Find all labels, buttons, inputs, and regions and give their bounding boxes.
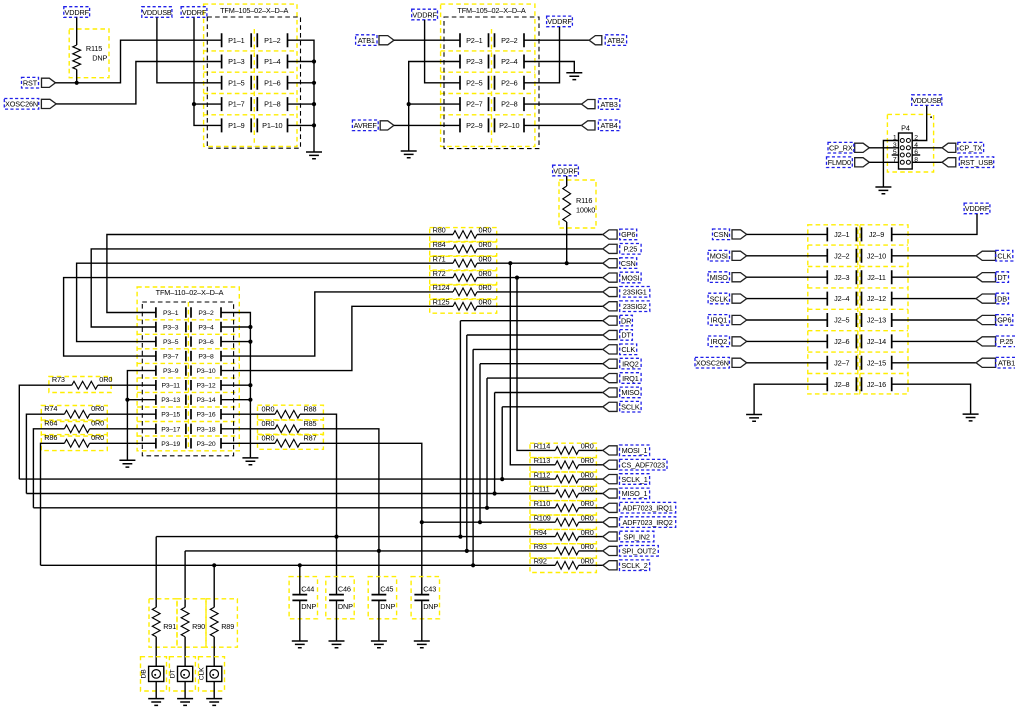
resistor R114 outline (yellow) <box>530 443 596 457</box>
svg-text:DNP: DNP <box>92 54 107 63</box>
port ADF7023_IRQ1 <box>603 503 617 512</box>
svg-text:23SIG2: 23SIG2 <box>623 302 647 311</box>
wire SCLK to port <box>502 406 603 408</box>
resistor R64 outline (yellow) <box>41 420 107 436</box>
ground (P1 bus) <box>306 152 322 159</box>
resistor R72 outline (yellow) <box>430 271 497 285</box>
svg-text:P1–5: P1–5 <box>228 78 245 87</box>
junction IRQ2/lower row <box>478 520 482 524</box>
wire P2-4 to ground <box>524 62 574 73</box>
wire C44 to ground <box>299 600 301 641</box>
resistor R87 outline (yellow) <box>258 434 324 449</box>
wires P3-4,P3-6,P3-12,P3-14 to ground bus <box>221 325 252 402</box>
wire R86 to P3-19 <box>90 442 156 444</box>
capacitor C43 outline (yellow) <box>411 577 439 619</box>
net label 23SIG1 (middle) <box>620 287 650 298</box>
resistor R109 outline (yellow) <box>530 515 596 529</box>
svg-text:CP_TX: CP_TX <box>959 144 982 153</box>
port IRQ2 (J2 left) <box>732 337 747 346</box>
wire R113 to port <box>579 464 603 466</box>
wire IRQ1 vertical to lower bank <box>486 378 488 508</box>
svg-text:P3–17: P3–17 <box>161 426 180 433</box>
wire DT to port <box>467 334 603 336</box>
resistor R112 outline (yellow) <box>530 472 596 486</box>
resistor R90 <box>181 607 189 637</box>
capacitor C46 <box>329 595 344 601</box>
wire CSN to J2-1 <box>747 233 828 235</box>
junction C44/SCLK_2 <box>298 563 302 567</box>
resistor R86 <box>64 439 89 447</box>
wire P2-8 to ATB3 <box>524 103 582 105</box>
capacitor C44 <box>292 595 307 601</box>
connector P2 pins P2-1..P2-10 <box>460 33 524 132</box>
wire P4 pin1 to ground <box>883 141 898 188</box>
svg-text:RST_USB: RST_USB <box>960 158 993 167</box>
wire J2-11 to DT <box>892 276 976 278</box>
svg-text:VDDRF: VDDRF <box>553 166 578 175</box>
junction C45/SPI_OUT2 <box>377 549 381 553</box>
svg-text:TFM–110–02–X–D–A: TFM–110–02–X–D–A <box>156 288 224 297</box>
ground (test point DT) <box>177 699 193 706</box>
svg-text:P3–3: P3–3 <box>163 325 179 332</box>
svg-text:P1–1: P1–1 <box>228 36 245 45</box>
svg-text:XOSC26N: XOSC26N <box>5 100 38 109</box>
ground (J2-16) <box>963 414 979 421</box>
resistor R110 <box>555 504 578 512</box>
svg-text:VDDRF: VDDRF <box>547 17 572 26</box>
svg-text:0R0: 0R0 <box>581 513 594 522</box>
resistor R91 outline (yellow) <box>149 599 177 647</box>
port 23SIG1 (middle) <box>603 287 617 296</box>
svg-text:P3–7: P3–7 <box>163 354 179 361</box>
svg-text:XOSC26N: XOSC26N <box>696 359 729 368</box>
resistor R115 outline (yellow) <box>69 29 109 78</box>
port MISO (middle) <box>603 388 617 397</box>
power label VDDRF (top, P1) <box>181 7 207 18</box>
wire VDDRF to R115 <box>76 18 78 46</box>
svg-text:J2–13: J2–13 <box>867 316 886 325</box>
test point DT <box>178 666 193 681</box>
resistor R64 <box>64 425 89 433</box>
junction IRQ1/lower row <box>485 506 489 510</box>
svg-text:SCLK: SCLK <box>621 403 640 412</box>
connector P3 component outline (yellow) <box>137 287 239 451</box>
svg-text:ATB2: ATB2 <box>607 36 624 45</box>
svg-text:IRQ1: IRQ1 <box>711 316 728 325</box>
resistor R84 outline (yellow) <box>430 242 497 256</box>
wire J2-16 to ground <box>892 384 971 414</box>
svg-text:DT: DT <box>997 273 1007 282</box>
wire R92 to port <box>579 564 603 566</box>
port FLMD0 <box>855 158 870 167</box>
svg-text:0R0: 0R0 <box>479 240 492 249</box>
svg-text:P2–2: P2–2 <box>501 36 518 45</box>
svg-text:0R0: 0R0 <box>91 404 104 413</box>
capacitor C44 outline (yellow) <box>289 577 317 619</box>
svg-text:P3–4: P3–4 <box>198 325 214 332</box>
connector P4 pin numbers 1-8 <box>893 135 918 164</box>
port GP6 (middle) <box>603 230 617 239</box>
svg-text:DB: DB <box>997 294 1007 303</box>
svg-text:MISO: MISO <box>621 388 640 397</box>
net label GP6 (J2 right) <box>996 315 1013 326</box>
wire SCLK to J2-4 <box>747 298 828 300</box>
wire SPI_OUT2 row (R90 to R93) <box>185 550 555 552</box>
svg-text:R73: R73 <box>52 375 65 384</box>
wire CSN riser to R113 <box>510 263 555 465</box>
junction VDDRF/P1-7 <box>192 102 196 106</box>
svg-text:0R0: 0R0 <box>581 442 594 451</box>
net label ATB3 <box>598 99 619 110</box>
connector J2 pins J2-1..J2-16 <box>827 227 891 391</box>
port MOSI (middle) <box>603 273 617 282</box>
wire XOSC26N to P1-3 <box>56 62 221 104</box>
resistor R125 <box>453 302 477 310</box>
svg-text:GP6: GP6 <box>997 316 1011 325</box>
resistor R92 outline (yellow) <box>530 558 596 572</box>
svg-text:R72: R72 <box>433 269 446 278</box>
connector P4 body <box>899 133 913 169</box>
svg-text:P2–4: P2–4 <box>501 57 518 66</box>
connector J2 component outlines (yellow) <box>808 225 908 394</box>
svg-text:0R0: 0R0 <box>262 434 275 443</box>
wire R89 top <box>213 565 215 607</box>
resistor R116 outline (yellow) <box>559 180 596 228</box>
svg-text:R112: R112 <box>534 470 550 479</box>
ground (C46) <box>329 641 345 648</box>
svg-text:SPI_OUT2: SPI_OUT2 <box>622 547 656 556</box>
resistor R115 <box>73 45 81 70</box>
svg-text:R93: R93 <box>534 542 547 551</box>
svg-text:R110: R110 <box>534 499 550 508</box>
wire MISO to J2-3 <box>747 276 828 278</box>
port MISO_1 <box>603 489 617 498</box>
svg-text:AVREF: AVREF <box>354 121 378 130</box>
net label CSN (J2 left) <box>713 229 730 240</box>
port MOSI (J2 left) <box>732 251 747 260</box>
ground (test point CLK) <box>206 699 222 706</box>
ground (C45) <box>371 641 387 648</box>
resistor R88 outline (yellow) <box>258 405 324 420</box>
wire R114 to port <box>579 449 603 451</box>
svg-text:R85: R85 <box>304 419 317 428</box>
wire P3-20 to R87 <box>221 442 275 444</box>
port MISO (J2 left) <box>732 273 747 282</box>
wire R109 to port <box>579 521 603 523</box>
svg-text:P.25: P.25 <box>1000 337 1014 346</box>
wire R64 left to riser <box>33 429 64 508</box>
port CSN (J2 left) <box>732 230 747 239</box>
wire P2-7 stub <box>409 103 460 105</box>
junction SCLK/lower row <box>500 477 504 481</box>
svg-text:0R0: 0R0 <box>91 419 104 428</box>
port DB (J2 right) <box>976 294 996 303</box>
wire R74 to P3-15 <box>90 413 156 415</box>
test point DT outline (yellow) <box>169 657 195 691</box>
wire FLMD0 to P4 pin7 <box>869 161 898 163</box>
resistor R110 outline (yellow) <box>530 501 596 515</box>
junction P2-7/ground bus <box>407 102 411 106</box>
wire VDDRF to P2-5 <box>425 20 460 83</box>
net label SCLK (J2 left) <box>708 293 729 304</box>
net label ATB1 <box>356 35 377 46</box>
power label VDDRF (R116) <box>553 165 579 176</box>
wire R90 to test point <box>184 637 186 667</box>
svg-text:FLMD0: FLMD0 <box>828 158 851 167</box>
junction P3-13/ground wire <box>125 398 129 402</box>
wire MOSI to port <box>477 277 603 279</box>
svg-text:R125: R125 <box>433 298 450 307</box>
svg-text:0R0: 0R0 <box>91 433 104 442</box>
port P.25 (J2 right) <box>976 337 996 346</box>
junction CSN/riser <box>508 261 512 265</box>
wire CLK to port <box>473 348 603 350</box>
svg-text:R114: R114 <box>534 442 550 451</box>
svg-text:R115: R115 <box>86 44 102 53</box>
wire test point DB to ground <box>155 682 157 699</box>
port ATB3 <box>582 100 596 109</box>
port SCLK_2 <box>603 561 617 570</box>
connector P2 component outline (yellow) <box>441 4 535 146</box>
port RST <box>42 78 56 87</box>
svg-text:DB: DB <box>141 669 148 679</box>
wire GP6 to port <box>477 234 603 236</box>
wire P1 right ground bus <box>288 40 315 152</box>
port ADF7023_IRQ2 <box>603 518 617 527</box>
svg-text:IRQ2: IRQ2 <box>711 337 728 346</box>
svg-text:0R0: 0R0 <box>479 298 492 307</box>
wire ADF7023_IRQ1 bus (R64 riser to R110) <box>33 507 555 509</box>
svg-text:P1–7: P1–7 <box>228 100 245 109</box>
svg-text:P2–3: P2–3 <box>466 57 483 66</box>
wire R91 drop <box>155 537 157 608</box>
resistor R91 <box>152 607 160 637</box>
svg-text:P2–9: P2–9 <box>466 121 483 130</box>
wire J2-15 to ATB1 <box>892 362 976 364</box>
svg-text:P3–18: P3–18 <box>197 426 216 433</box>
svg-text:0R0: 0R0 <box>479 254 492 263</box>
port DT (middle) <box>603 330 617 339</box>
resistor R74 <box>64 410 89 418</box>
svg-text:J2–12: J2–12 <box>867 294 886 303</box>
svg-text:C43: C43 <box>423 585 436 594</box>
svg-text:P3–13: P3–13 <box>161 397 180 404</box>
net label CLK (J2 right) <box>996 250 1013 261</box>
net label IRQ1 (middle) <box>620 373 641 384</box>
svg-text:IRQ1: IRQ1 <box>622 374 639 383</box>
net label CP_TX <box>958 142 984 153</box>
port XOSC26N <box>41 99 56 108</box>
connector P1 component outline (yellow) <box>204 4 297 146</box>
svg-text:J2–16: J2–16 <box>867 380 886 389</box>
svg-text:R90: R90 <box>192 622 205 631</box>
svg-text:0R0: 0R0 <box>581 456 594 465</box>
net label ATB2 <box>605 35 626 46</box>
net label 23SIG2 (middle) <box>620 301 650 312</box>
svg-text:P1–3: P1–3 <box>228 57 245 66</box>
wire P4 pin8 to RST_USB <box>912 161 942 163</box>
svg-text:J2–7: J2–7 <box>834 358 849 367</box>
port ATB4 <box>582 121 596 130</box>
ground (test point DB) <box>148 699 164 706</box>
svg-text:P3–9: P3–9 <box>163 368 179 375</box>
svg-text:DNP: DNP <box>423 602 438 611</box>
svg-text:J2–1: J2–1 <box>834 230 849 239</box>
wire MISO to port <box>495 392 603 394</box>
svg-text:CLK: CLK <box>997 252 1011 261</box>
port IRQ2 (middle) <box>603 359 617 368</box>
wire R88 to riser/cap <box>300 414 337 594</box>
net label DT (middle) <box>620 330 633 341</box>
svg-text:P3–10: P3–10 <box>197 368 216 375</box>
svg-text:P3–5: P3–5 <box>163 339 179 346</box>
wire R115 to RST net <box>76 70 78 83</box>
wire 23SIG2 net: R125 to P3-10 <box>221 306 453 370</box>
svg-text:J2–9: J2–9 <box>869 230 884 239</box>
power label VDDRF (J2) <box>964 203 990 214</box>
wire MOSI to J2-2 <box>747 255 828 257</box>
svg-text:ADF7023_IRQ1: ADF7023_IRQ1 <box>623 504 673 513</box>
svg-text:P3–11: P3–11 <box>161 383 180 390</box>
svg-text:0R0: 0R0 <box>581 528 594 537</box>
svg-text:P1–8: P1–8 <box>264 100 281 109</box>
ground (P4) <box>875 187 891 194</box>
wire test point CLK to ground <box>213 682 215 699</box>
svg-text:P2–10: P2–10 <box>499 121 519 130</box>
svg-text:J2–3: J2–3 <box>834 273 849 282</box>
svg-text:TFM–105–02–X–D–A: TFM–105–02–X–D–A <box>220 6 288 15</box>
svg-text:SCLK_1: SCLK_1 <box>621 475 647 484</box>
svg-text:VDDUSB: VDDUSB <box>142 8 172 17</box>
port SCLK (middle) <box>603 402 617 411</box>
resistor R113 outline (yellow) <box>530 458 596 472</box>
svg-text:J2–6: J2–6 <box>834 337 849 346</box>
wire RST to P1-1 <box>56 40 222 83</box>
connector P4 component outline (yellow) <box>887 114 933 172</box>
ground (P3 left) <box>119 460 135 467</box>
port SPI_IN2 <box>603 532 617 541</box>
resistor R86 outline (yellow) <box>41 435 107 451</box>
junction DR/lower row <box>458 535 462 539</box>
wire C45 to ground <box>378 600 380 641</box>
connector P1 per-pin outlines (yellow) <box>204 29 297 146</box>
wire P2-2 to ATB2 <box>524 39 589 41</box>
wire IRQ1 to J2-5 <box>747 319 828 321</box>
P4 pin6 no-connect stub <box>912 154 920 156</box>
ground (C44) <box>292 641 308 648</box>
wire C44 top <box>299 565 301 594</box>
resistor R114 <box>555 447 578 455</box>
resistor R80 <box>453 231 477 239</box>
svg-text:0R0: 0R0 <box>581 470 594 479</box>
port CS_ADF7023 <box>603 460 617 469</box>
wire MOSI net: R72 to P3-7 <box>64 278 453 357</box>
svg-text:VDDRF: VDDRF <box>182 8 207 17</box>
port GP6 (J2 right) <box>976 315 996 324</box>
net label IRQ2 (J2 left) <box>708 336 729 347</box>
resistor R109 <box>555 518 578 526</box>
svg-text:R94: R94 <box>534 528 547 537</box>
svg-text:VDDRF: VDDRF <box>965 204 990 213</box>
wire VDDUSB to P1-5 <box>157 18 222 83</box>
power label VDDRF (above R115) <box>64 7 90 18</box>
port P.25 (middle) <box>603 244 617 253</box>
svg-text:R116: R116 <box>576 196 592 205</box>
connector P3 per-pin outlines (yellow) <box>137 302 239 451</box>
svg-text:J2–10: J2–10 <box>867 251 886 260</box>
net label SPI_OUT2 <box>620 546 659 557</box>
svg-text:0R0: 0R0 <box>99 375 112 384</box>
svg-text:R86: R86 <box>44 433 57 442</box>
net label CS_ADF7023 <box>620 459 668 470</box>
port CSN (middle) <box>603 259 617 268</box>
resistor R80 outline (yellow) <box>430 228 497 242</box>
svg-text:DT: DT <box>170 670 177 679</box>
svg-text:DR: DR <box>621 316 631 325</box>
svg-text:R64: R64 <box>44 419 57 428</box>
resistor R90 outline (yellow) <box>177 599 206 647</box>
port DR (middle) <box>603 316 617 325</box>
P4 pin5 no-connect stub <box>892 154 899 156</box>
svg-text:0R0: 0R0 <box>581 485 594 494</box>
wire 23SIG1 net: R124 to P3-8 <box>221 292 453 356</box>
svg-text:MOSI_1: MOSI_1 <box>622 446 648 455</box>
svg-text:P3–8: P3–8 <box>198 354 214 361</box>
svg-text:DNP: DNP <box>301 602 316 611</box>
net label MISO_1 <box>620 488 650 499</box>
wire CLK vertical to lower bank <box>472 349 474 565</box>
svg-text:P2–5: P2–5 <box>466 78 483 87</box>
net label ADF7023_IRQ2 <box>620 517 676 528</box>
wire R85 to riser/cap <box>300 429 379 595</box>
svg-text:P2–7: P2–7 <box>466 100 483 109</box>
svg-text:R111: R111 <box>534 485 550 494</box>
wire VDDRF to P2-6 <box>524 27 560 83</box>
wire P3 right ground bus <box>221 313 250 458</box>
net label MOSI_1 <box>620 445 650 456</box>
svg-text:VDDRF: VDDRF <box>412 10 437 19</box>
wire CSN net: R71 to P3-5 <box>77 263 453 341</box>
svg-text:23SIG1: 23SIG1 <box>623 288 647 297</box>
wire MISO vertical to lower bank <box>494 393 496 494</box>
svg-text:ATB3: ATB3 <box>601 100 618 109</box>
port ATB2 <box>589 36 602 45</box>
svg-text:P2–6: P2–6 <box>501 78 518 87</box>
wire AVREF to P2-9 <box>394 124 460 126</box>
svg-text:CSN: CSN <box>621 259 636 268</box>
wire SCLK_1 bus (R73 riser to R112) <box>19 478 555 480</box>
svg-text:P3–19: P3–19 <box>161 441 180 448</box>
net label ATB4 <box>598 120 619 131</box>
wire DT vertical to lower bank <box>466 335 468 551</box>
port MOSI_1 <box>603 446 617 455</box>
connector P4 pin circles <box>900 139 910 165</box>
svg-text:J2–8: J2–8 <box>834 380 849 389</box>
net label DR (middle) <box>620 315 633 326</box>
port IRQ1 (J2 left) <box>732 315 747 324</box>
svg-text:0R0: 0R0 <box>479 226 492 235</box>
net label GP6 (middle) <box>620 229 637 240</box>
resistor R71 <box>453 259 477 267</box>
resistor R88 <box>275 410 300 418</box>
wire J2-8 to ground <box>754 384 827 414</box>
svg-text:P.25: P.25 <box>624 245 638 254</box>
svg-text:MOSI: MOSI <box>710 252 728 261</box>
wire R111 to port <box>579 493 603 495</box>
net label P.25 (middle) <box>620 244 641 255</box>
wire VDDUSB to P4 pin2 <box>912 106 927 141</box>
resistor R74 outline (yellow) <box>41 406 107 422</box>
